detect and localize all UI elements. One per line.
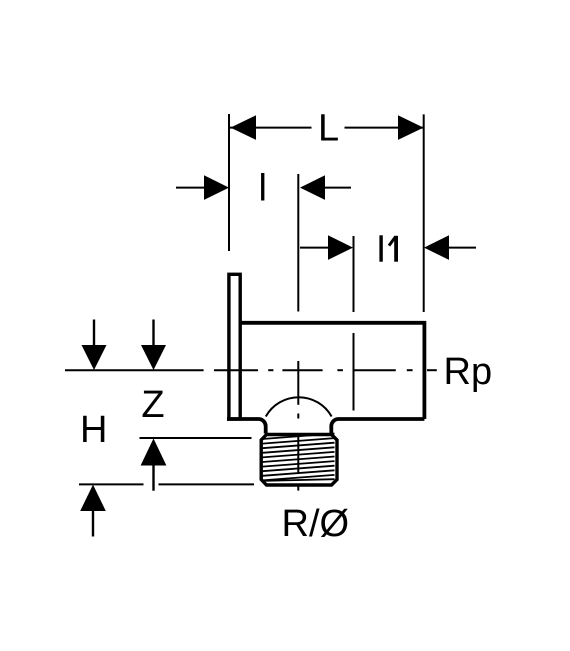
svg-text:l: l (259, 168, 267, 210)
svg-text:H: H (80, 409, 107, 451)
svg-text:Z: Z (141, 384, 164, 426)
svg-text:Rp: Rp (444, 351, 493, 393)
svg-text:L: L (318, 108, 339, 150)
svg-text:R/Ø: R/Ø (282, 503, 350, 545)
